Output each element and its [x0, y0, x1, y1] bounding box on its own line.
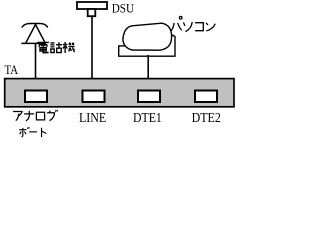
svg-text:TA: TA: [5, 62, 19, 77]
svg-text:LINE: LINE: [79, 111, 106, 126]
svg-text:DTE2: DTE2: [192, 111, 221, 126]
svg-text:DSU: DSU: [112, 1, 135, 16]
svg-text:DTE1: DTE1: [133, 111, 162, 126]
